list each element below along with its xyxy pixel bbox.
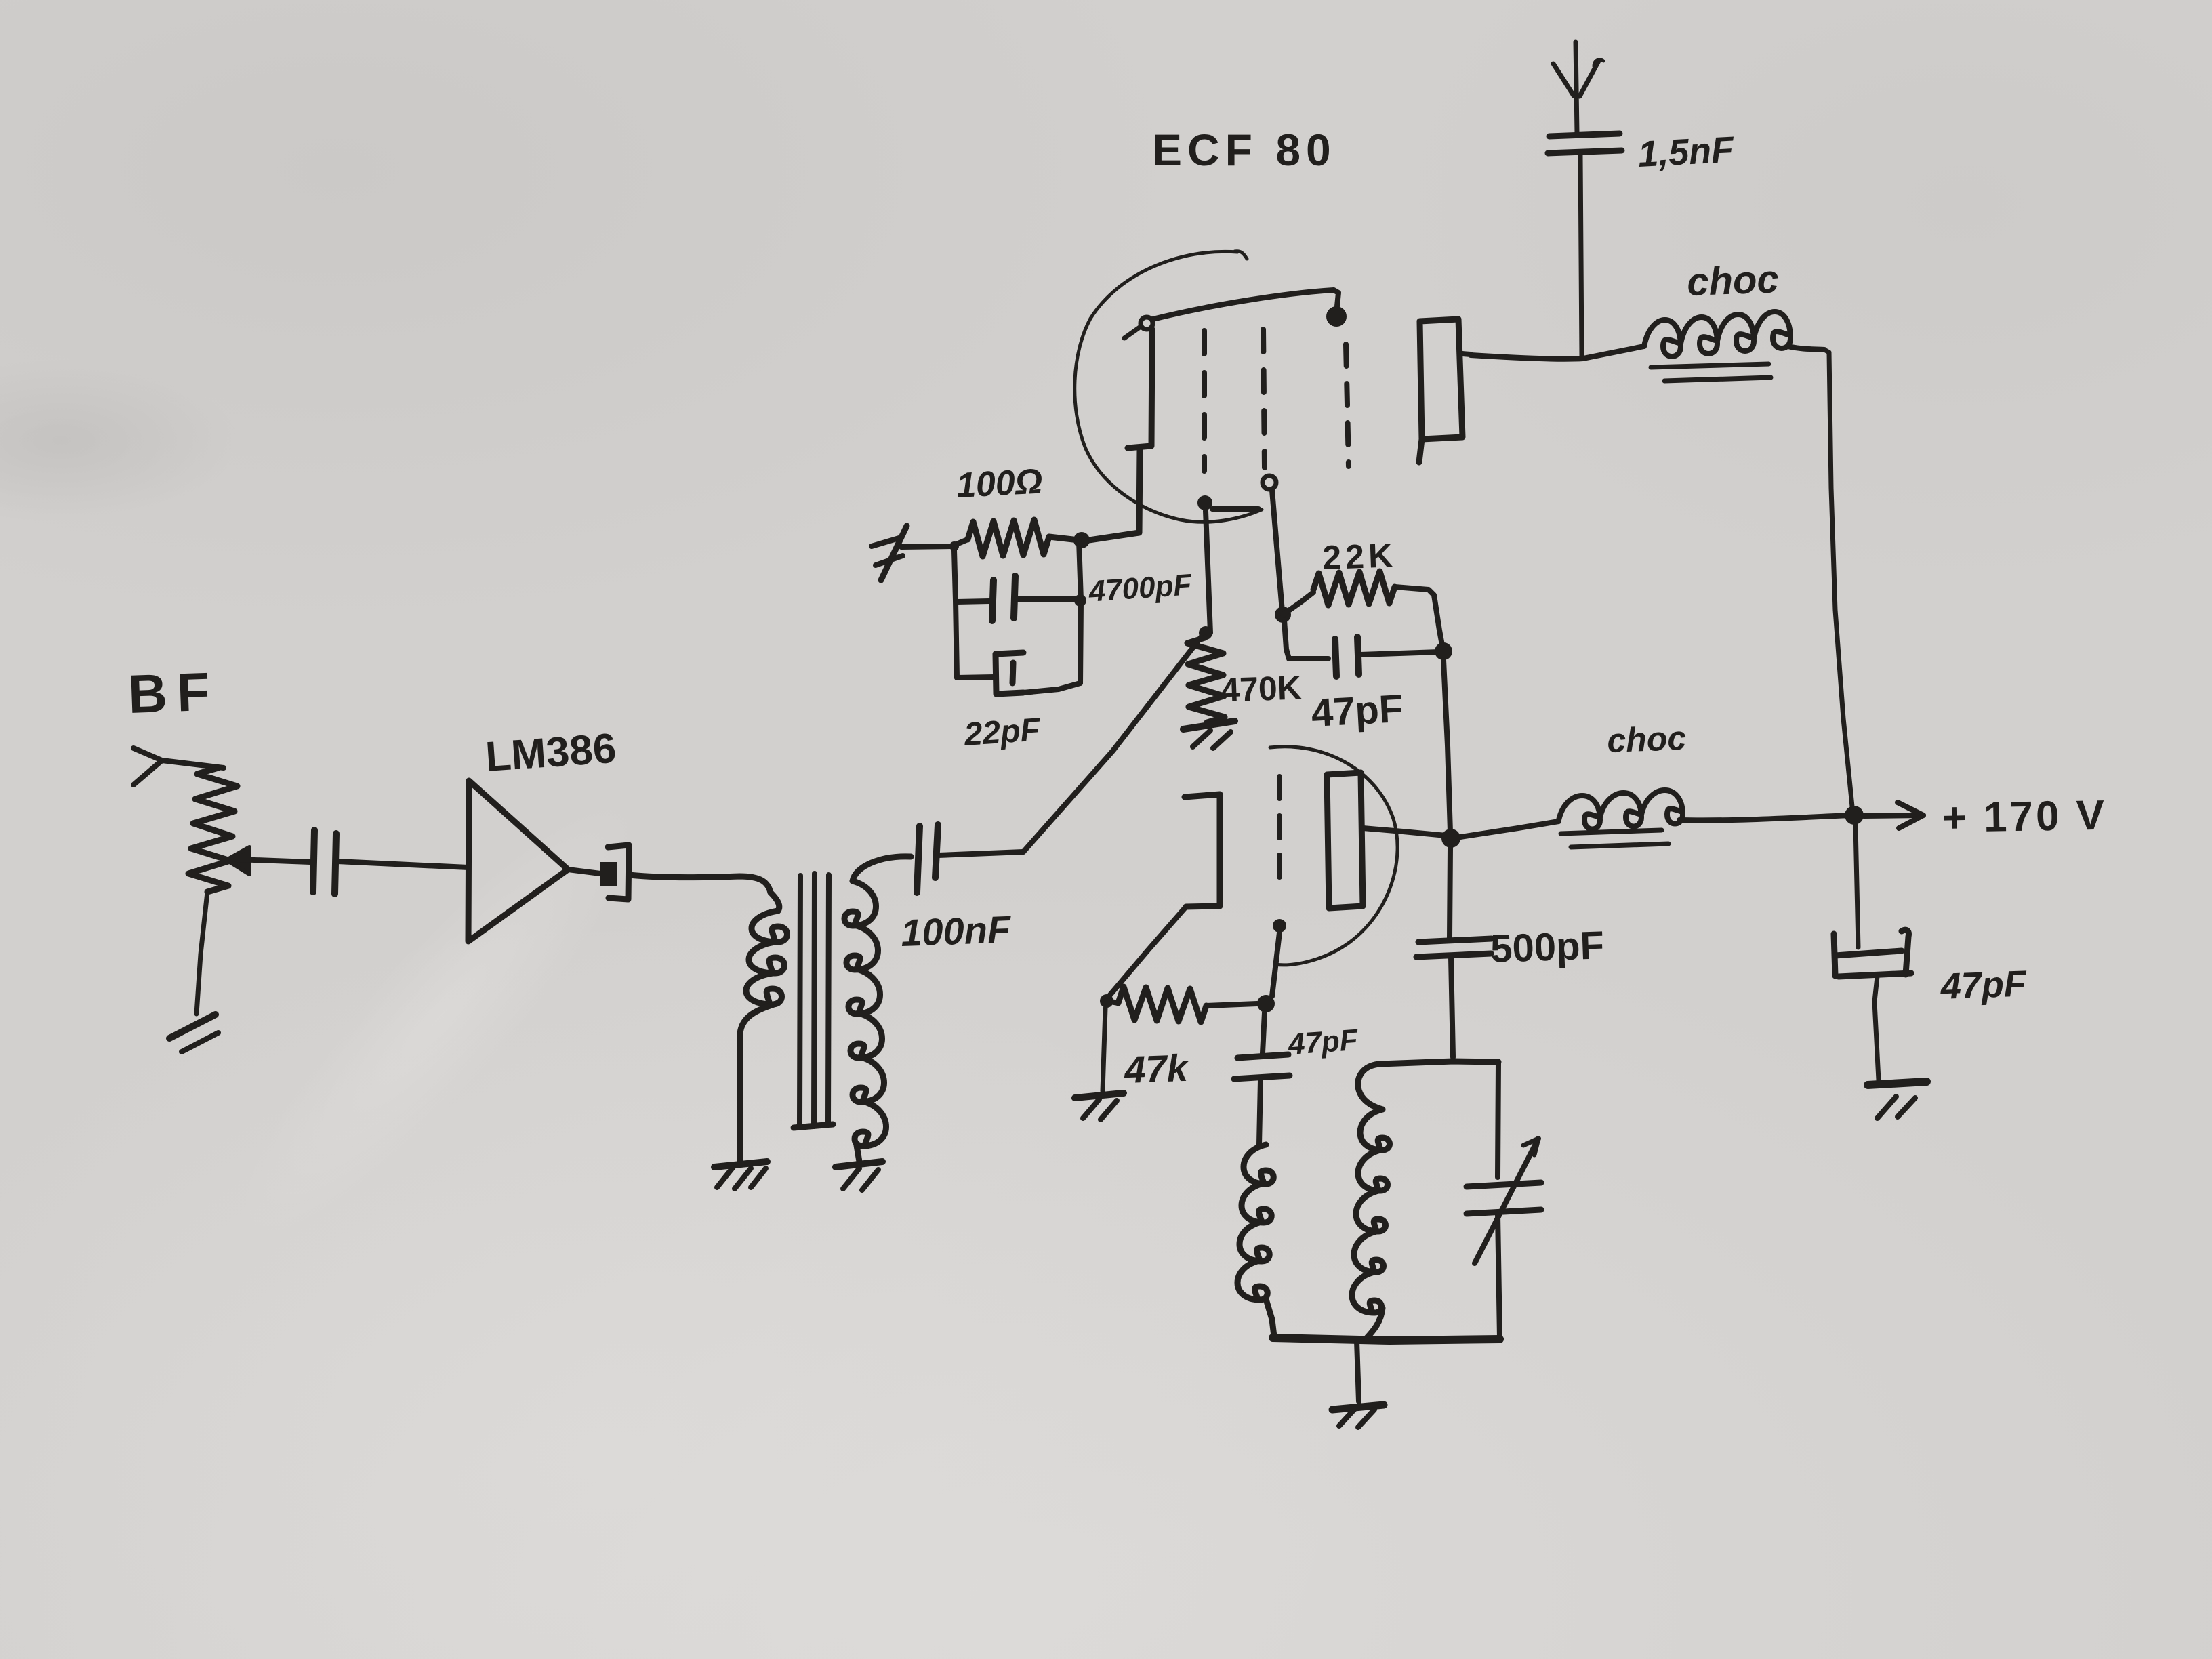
ground GND2 under primary (714, 1162, 767, 1189)
node H cathode node (1100, 994, 1113, 1008)
capacitor C4 4700pF (957, 576, 1086, 621)
svg-text:22pF: 22pF (962, 712, 1042, 753)
inductor L1 core bars (1651, 364, 1771, 381)
tube V1a grid 1 dashed (1197, 331, 1258, 510)
label 500pF (1490, 923, 1605, 971)
tube V1a grid 2 dashed (1263, 329, 1282, 611)
svg-text:+ 170 V: + 170 V (1942, 792, 2108, 842)
svg-text:47k: 47k (1123, 1046, 1190, 1091)
ground GND7 (1075, 1093, 1124, 1120)
svg-text:ECF 80: ECF 80 (1152, 125, 1336, 175)
node BF input label (127, 661, 220, 724)
tank top wire (1358, 1061, 1498, 1109)
wire right rail (1824, 350, 1853, 813)
label 100nF (900, 907, 1012, 954)
svg-text:1,5nF: 1,5nF (1637, 129, 1736, 175)
svg-text:22K: 22K (1322, 536, 1397, 577)
wire anode to choke (1471, 346, 1644, 359)
potentiometer P1 (188, 768, 310, 892)
svg-text:47pF: 47pF (1940, 963, 2028, 1006)
capacitor C9 47pF (1234, 1012, 1290, 1145)
capacitor C1 (313, 830, 468, 894)
vacuum tube V1a envelope (1075, 251, 1262, 523)
tube V1b plate (1327, 773, 1446, 908)
label 47k (1123, 1046, 1190, 1091)
node A (949, 541, 959, 551)
label choc1 (1686, 257, 1780, 304)
node E plate junction (1435, 642, 1452, 832)
svg-text:choc: choc (1686, 257, 1780, 304)
wire parallel network right (1079, 540, 1081, 683)
inductor L4 tank coil (1352, 1109, 1390, 1338)
trimmer capacitor C5 22pF (957, 653, 1080, 694)
ground GND4 (1183, 721, 1235, 748)
svg-text:470K: 470K (1220, 668, 1302, 709)
wire C2 to transformer T1 (629, 875, 771, 893)
wire BF input with arrow (134, 748, 224, 785)
label 47pF tank (1286, 1023, 1359, 1061)
node C grid junction (1199, 626, 1212, 640)
ground GND8 (1868, 1082, 1927, 1118)
variable capacitor arrow (1475, 1139, 1538, 1263)
node B cathode junction (1073, 532, 1090, 548)
tube V1b grid dashed (1272, 777, 1286, 996)
label 1.5nF (1637, 129, 1736, 175)
tube V1b cathode (1110, 794, 1220, 995)
label 47pF top (1310, 687, 1404, 735)
wire grid coupling diagonal (1023, 633, 1204, 852)
resistor R4 47k (1107, 987, 1257, 1022)
tube V1a plate top wire (1153, 290, 1347, 327)
svg-text:47pF: 47pF (1286, 1023, 1359, 1061)
resistor R1 100ohm (951, 520, 1079, 556)
label +170V (1942, 792, 2108, 842)
svg-text:100Ω: 100Ω (956, 462, 1044, 506)
wire parallel network left (954, 550, 957, 678)
svg-text:LM386: LM386 (484, 725, 617, 781)
tube V1a cathode (1084, 317, 1153, 541)
vacuum tube V1b envelope (1270, 747, 1397, 965)
variable capacitor C11 (1467, 1062, 1541, 1338)
capacitor C7 47pF (1284, 620, 1439, 676)
label ECF80 (1152, 125, 1336, 175)
capacitor C10 500pF (1416, 847, 1492, 1057)
ground GND6 tank (1332, 1340, 1384, 1427)
resistor R2 470K (1187, 638, 1225, 722)
node G B+ node (1845, 806, 1864, 825)
antenna ANT1 (1553, 42, 1603, 134)
svg-text:500pF: 500pF (1490, 923, 1605, 971)
inductor L1 choke (1644, 312, 1824, 356)
wire B+ arrow (1864, 802, 1923, 828)
capacitor C3 100nF (917, 825, 1023, 893)
label 22K (1322, 536, 1397, 577)
svg-text:choc: choc (1606, 719, 1687, 760)
node D screen junction (1275, 607, 1291, 623)
capacitor C8 47pF output (1834, 825, 1911, 1080)
op-amp U1 LM386 (468, 725, 617, 941)
label 100ohm (956, 462, 1044, 506)
wire P1 to ground (197, 892, 207, 1014)
label 47pF output (1940, 963, 2028, 1006)
ground GND3 under secondary (836, 1162, 882, 1190)
transformer T1 secondary (844, 857, 911, 1162)
node F plate node (1441, 829, 1460, 848)
capacitor C2 output (568, 845, 629, 899)
inductor L3 feedback coil (1237, 1145, 1274, 1336)
ground GND5 (872, 526, 951, 580)
tube V1a anode cap (1419, 319, 1471, 462)
svg-text:47pF: 47pF (1310, 687, 1404, 735)
capacitor C6 1.5nF (1548, 134, 1622, 359)
inductor L2 core bars (1561, 830, 1668, 847)
label 470K (1220, 668, 1302, 709)
node I grid node (1257, 995, 1275, 1012)
inductor L2 choke (1460, 790, 1850, 837)
wire grid1 down to R2 (1206, 511, 1210, 633)
tube V1a grid 3 dashed (1346, 344, 1349, 466)
label 4700pF (1087, 568, 1193, 609)
label 22pF (962, 712, 1042, 753)
tank bottom wire (1273, 1338, 1500, 1340)
resistor R3 22K (1283, 571, 1442, 645)
label choc2 (1606, 719, 1687, 760)
transformer T1 core (794, 874, 833, 1128)
svg-text:100nF: 100nF (900, 907, 1012, 954)
ground GND1 (169, 1015, 218, 1052)
transformer T1 primary (740, 893, 787, 1162)
svg-text:BF: BF (127, 661, 220, 724)
wire 47k to ground (1103, 1008, 1105, 1091)
